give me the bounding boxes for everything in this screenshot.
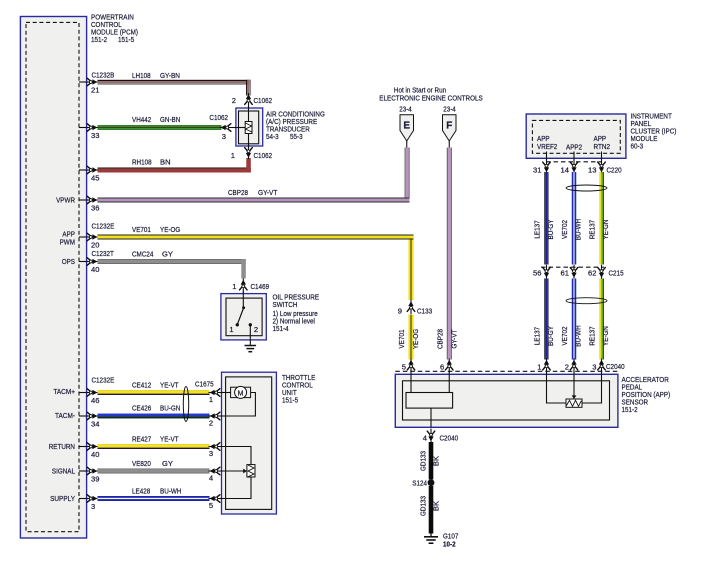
- svg-text:151-2: 151-2: [91, 35, 107, 44]
- svg-text:34: 34: [91, 420, 99, 429]
- svg-text:2: 2: [232, 96, 236, 105]
- connector C1062 pin 1: [231, 145, 272, 160]
- svg-text:VH442: VH442: [132, 115, 151, 124]
- svg-text:GY-VT: GY-VT: [450, 329, 459, 349]
- svg-text:3: 3: [592, 363, 596, 372]
- svg-text:F: F: [446, 121, 452, 132]
- connector C1675 pin 2: [209, 412, 223, 427]
- svg-text:151-5: 151-5: [118, 35, 134, 44]
- throttle control unit box: [222, 372, 277, 514]
- wire CBP28 GY-VT from flag F: [436, 148, 459, 360]
- svg-text:9: 9: [398, 307, 402, 316]
- PCM pin 36 connector: [79, 196, 99, 212]
- throttle motor M: [222, 386, 256, 416]
- wire GD133 BK upper: [419, 442, 441, 479]
- svg-text:YE-OG: YE-OG: [160, 225, 180, 234]
- throttle position sensor (potentiometer): [222, 447, 256, 499]
- twisted pair loop upper: [566, 185, 607, 191]
- svg-text:151-5: 151-5: [282, 396, 298, 405]
- wire CE412 YE-VT: [98, 381, 210, 396]
- wire RE427 YE-VT: [98, 435, 210, 450]
- connector C1062 pin 2: [232, 93, 272, 107]
- APP potentiometer: [547, 374, 602, 407]
- svg-text:14: 14: [561, 166, 569, 175]
- svg-text:C220: C220: [607, 166, 622, 175]
- PCM pin 20 connector: [79, 222, 114, 250]
- oil pressure switch title: [273, 293, 320, 334]
- svg-text:5: 5: [209, 501, 213, 510]
- connector C220 dashed line: [546, 161, 602, 163]
- svg-text:VE702: VE702: [560, 220, 569, 239]
- svg-text:ELECTRONIC ENGINE CONTROLS: ELECTRONIC ENGINE CONTROLS: [379, 94, 482, 103]
- svg-text:RETURN: RETURN: [49, 442, 75, 451]
- svg-text:56: 56: [533, 269, 541, 278]
- wire CE426 BU-GN: [98, 404, 210, 419]
- wire CBP28 GY-VT (VPWR to flag E): [98, 148, 410, 203]
- svg-text:LH108: LH108: [132, 71, 151, 80]
- svg-text:RE427: RE427: [132, 435, 151, 444]
- IPC module box: [526, 114, 626, 158]
- svg-text:C133: C133: [417, 307, 432, 316]
- A/C pressure transducer box: [236, 108, 263, 146]
- svg-text:5: 5: [402, 363, 406, 372]
- wire GD133 BK lower: [419, 486, 441, 534]
- throttle title: [282, 373, 315, 405]
- svg-text:BU-GY: BU-GY: [546, 220, 555, 240]
- svg-text:33: 33: [91, 131, 99, 140]
- svg-text:VPWR: VPWR: [56, 196, 75, 205]
- svg-text:BU-WH: BU-WH: [160, 487, 181, 496]
- connector C2040 pin 5: [402, 359, 415, 375]
- APP sensor dashed connector line C2040: [395, 370, 618, 372]
- svg-text:BN: BN: [160, 158, 171, 167]
- APP sensor title: [622, 375, 671, 414]
- svg-text:SUPPLY: SUPPLY: [50, 494, 75, 503]
- svg-text:BU-WH: BU-WH: [574, 325, 583, 346]
- PCM module box: [20, 17, 86, 539]
- svg-text:151-4: 151-4: [273, 324, 289, 333]
- connector C1675 pin 5: [209, 495, 223, 510]
- PCM pin 39 connector: [79, 467, 99, 483]
- svg-text:RE137: RE137: [588, 326, 597, 345]
- svg-text:CE426: CE426: [132, 404, 151, 413]
- oil pressure switch box: [221, 294, 266, 340]
- svg-text:S124: S124: [412, 479, 427, 488]
- svg-text:RE137: RE137: [588, 220, 597, 239]
- APP sensor element: [406, 374, 453, 427]
- svg-text:CBP28: CBP28: [228, 188, 248, 197]
- connector C1469 pin 1: [232, 279, 269, 293]
- svg-text:C2040: C2040: [440, 434, 459, 443]
- svg-text:GY-BN: GY-BN: [160, 71, 180, 80]
- svg-text:C1232E: C1232E: [92, 376, 115, 385]
- svg-text:3: 3: [222, 132, 226, 141]
- svg-text:LE428: LE428: [132, 487, 150, 496]
- wire LE428 BU-WH: [98, 487, 210, 502]
- svg-text:10-2: 10-2: [443, 540, 456, 549]
- svg-text:40: 40: [91, 450, 99, 459]
- svg-text:40: 40: [91, 265, 99, 274]
- IPC title: [631, 112, 677, 151]
- svg-text:SIGNAL: SIGNAL: [52, 467, 75, 476]
- connector C1675 pin 3: [209, 443, 223, 458]
- svg-text:BK: BK: [432, 501, 441, 511]
- svg-text:BU-WH: BU-WH: [574, 219, 583, 240]
- wire LE137 BU-GY upper: [533, 172, 556, 265]
- svg-text:62: 62: [588, 269, 596, 278]
- svg-text:C1062: C1062: [209, 113, 228, 122]
- svg-text:31: 31: [533, 166, 541, 175]
- connector C2040 pin 6: [440, 359, 453, 375]
- wire RH108 BN: [98, 158, 251, 173]
- svg-text:C1469: C1469: [251, 282, 270, 291]
- svg-text:GY: GY: [162, 459, 173, 468]
- svg-text:3: 3: [91, 502, 95, 511]
- svg-text:36: 36: [91, 204, 99, 213]
- svg-text:GY: GY: [162, 250, 173, 259]
- svg-text:CMC24: CMC24: [132, 250, 153, 259]
- svg-text:LE137: LE137: [533, 220, 542, 238]
- svg-text:APP2: APP2: [566, 143, 582, 152]
- PCM pin 40 connector: [79, 443, 99, 459]
- svg-text:CBP28: CBP28: [436, 329, 445, 349]
- svg-text:CE412: CE412: [132, 381, 151, 390]
- svg-text:LE137: LE137: [533, 327, 542, 345]
- wire VH442 GN-BN: [98, 115, 222, 130]
- svg-text:VE701: VE701: [132, 225, 151, 234]
- svg-text:C1232T: C1232T: [92, 249, 115, 258]
- ground label G107 10-2: [443, 532, 458, 549]
- svg-text:YE-VT: YE-VT: [160, 381, 179, 390]
- connector C215 pin 56: [533, 265, 550, 279]
- wire VE820 GY: [98, 459, 210, 474]
- svg-text:54-3: 54-3: [266, 132, 279, 141]
- PCM pin 3 connector: [79, 495, 99, 511]
- PCM pin 45 connector: [79, 166, 99, 182]
- connector C1675 pin 1: [209, 389, 223, 404]
- PCM pin 34 connector: [79, 412, 99, 428]
- header Hot in Start or Run: [379, 86, 482, 103]
- svg-text:BU-GY: BU-GY: [546, 326, 555, 346]
- PCM pin 46 connector: [79, 376, 114, 406]
- svg-text:YE-GN: YE-GN: [601, 326, 610, 346]
- svg-text:4: 4: [423, 434, 427, 443]
- svg-text:YE-OG: YE-OG: [411, 329, 420, 349]
- svg-text:YE-GN: YE-GN: [601, 220, 610, 240]
- flag E: [400, 115, 414, 148]
- svg-text:2: 2: [254, 325, 258, 334]
- connector C2040 pin 3: [592, 359, 605, 375]
- svg-text:23-4: 23-4: [443, 105, 456, 114]
- connector C220 pin 31: [533, 152, 550, 175]
- svg-text:39: 39: [91, 475, 99, 484]
- svg-text:20: 20: [91, 241, 99, 250]
- svg-text:21: 21: [91, 86, 99, 95]
- wire VE701 YE-OG vertical: [397, 240, 420, 360]
- svg-text:VE702: VE702: [560, 327, 569, 346]
- ground at oil pressure switch: [245, 346, 257, 352]
- wire VE702 BU-WH lower: [560, 279, 583, 360]
- svg-text:C2040: C2040: [606, 362, 625, 371]
- svg-text:2: 2: [565, 363, 569, 372]
- PCM pin 33 connector: [79, 124, 99, 140]
- PCM pin 21 connector: [79, 71, 114, 95]
- svg-text:VREF2: VREF2: [537, 142, 557, 151]
- svg-text:E: E: [403, 121, 410, 132]
- svg-text:C1232E: C1232E: [92, 222, 115, 231]
- svg-text:C215: C215: [609, 269, 624, 278]
- svg-text:46: 46: [91, 396, 99, 405]
- connector C215 pin 61: [561, 265, 578, 279]
- svg-text:RH108: RH108: [132, 158, 152, 167]
- svg-text:4: 4: [209, 474, 213, 483]
- wire LH108 GY-BN: [98, 71, 252, 96]
- svg-text:55-3: 55-3: [290, 132, 303, 141]
- transducer title: [266, 110, 325, 142]
- svg-text:2: 2: [209, 419, 213, 428]
- svg-text:23-4: 23-4: [399, 105, 412, 114]
- svg-text:OPS: OPS: [62, 257, 75, 266]
- connector C215 dashed line: [541, 266, 604, 268]
- svg-text:BU-GN: BU-GN: [160, 404, 180, 413]
- svg-text:151-2: 151-2: [622, 405, 638, 414]
- svg-text:GD133: GD133: [419, 451, 428, 471]
- svg-text:45: 45: [91, 174, 99, 183]
- connector C220 pin 14: [561, 152, 578, 175]
- splice S124: [412, 479, 434, 488]
- svg-text:1: 1: [209, 395, 213, 404]
- svg-text:M: M: [238, 390, 244, 397]
- svg-text:SWITCH: SWITCH: [273, 300, 298, 309]
- svg-text:VE820: VE820: [132, 459, 151, 468]
- wire RE137 YE-GN upper: [588, 172, 611, 265]
- svg-text:3: 3: [209, 449, 213, 458]
- svg-text:PWM: PWM: [60, 238, 75, 247]
- twisted pair loop TACM: [183, 387, 188, 422]
- wire VE701 YE-OG horizontal: [98, 225, 414, 240]
- connector C2040 pin 2: [565, 359, 578, 375]
- connector C220 pin 13: [588, 152, 605, 175]
- svg-text:GD133: GD133: [419, 496, 428, 516]
- connector C2040 pin 1: [537, 359, 550, 375]
- svg-text:C1062: C1062: [254, 151, 273, 160]
- svg-text:1: 1: [537, 363, 541, 372]
- svg-text:BK: BK: [432, 456, 441, 466]
- wire RE137 YE-GN lower: [588, 279, 611, 360]
- svg-text:C1675: C1675: [195, 380, 214, 389]
- connector C133 pin 9: [398, 300, 432, 316]
- connector C1062 pin 3: [209, 113, 233, 141]
- svg-text:GN-BN: GN-BN: [160, 115, 180, 124]
- svg-text:1: 1: [232, 282, 236, 291]
- svg-text:TACM+: TACM+: [53, 387, 75, 396]
- transducer sensor element: [233, 106, 252, 150]
- svg-text:60-3: 60-3: [631, 142, 644, 151]
- oil pressure switch contacts: [229, 291, 258, 346]
- wire VE702 BU-WH upper: [560, 172, 583, 265]
- ground G107: [424, 534, 438, 544]
- svg-text:GY-VT: GY-VT: [258, 188, 278, 197]
- connector C2040 pin 4: [423, 429, 458, 443]
- connector C1675 pin 4: [209, 467, 223, 482]
- flag F: [443, 115, 457, 148]
- svg-text:RTN2: RTN2: [594, 142, 611, 151]
- IPC pin labels: [537, 134, 610, 152]
- PCM title text: [91, 13, 138, 45]
- svg-text:1: 1: [231, 151, 235, 160]
- wire LE137 BU-GY lower: [533, 279, 556, 360]
- twisted pair loop lower: [566, 298, 607, 304]
- svg-text:TACM-: TACM-: [55, 411, 75, 420]
- PCM pin name labels: [49, 196, 76, 504]
- svg-text:6: 6: [440, 363, 444, 372]
- svg-text:YE-VT: YE-VT: [160, 435, 179, 444]
- svg-text:C1062: C1062: [254, 96, 273, 105]
- svg-text:13: 13: [588, 166, 596, 175]
- wire CMC24 GY: [98, 250, 246, 279]
- svg-text:C1232B: C1232B: [92, 71, 115, 80]
- svg-text:VE701: VE701: [397, 330, 406, 349]
- svg-text:61: 61: [561, 269, 569, 278]
- connector C215 pin 62: [588, 265, 605, 279]
- APP sensor box: [395, 374, 618, 427]
- PCM pin 40 connector: [79, 249, 114, 274]
- svg-text:1: 1: [229, 325, 233, 334]
